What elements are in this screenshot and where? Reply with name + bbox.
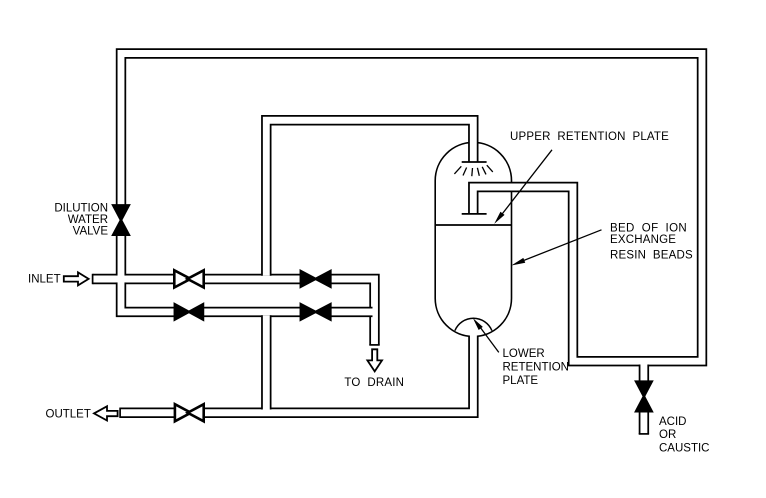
valve V3 second row left (closed) [174,303,203,320]
svg-text:RETENTION: RETENTION [503,362,569,374]
pipe: riser from second row to outlet line [261,315,271,409]
svg-text:ACID: ACID [659,416,686,428]
upper retention plate (bed top line) [435,224,511,226]
upper distributor T-bar [462,161,487,163]
leader: bed of resin [516,230,602,264]
cap: drain stub end [369,344,379,346]
svg-text:LOWER: LOWER [503,348,545,360]
label: LOWER RETENTION PLATE [503,348,569,387]
cap: acid/caustic stub end [639,433,649,435]
valve V2 inlet row right (closed) [300,270,331,287]
spray lines under distributor [454,165,492,176]
svg-text:INLET: INLET [28,273,61,285]
svg-text:OR: OR [659,429,676,441]
svg-text:EXCHANGE: EXCHANGE [610,234,676,246]
svg-text:RESIN BEADS: RESIN BEADS [610,250,693,262]
drain flow arrow [367,349,382,371]
svg-text:TO DRAIN: TO DRAIN [344,377,404,389]
pipe: inlet row and drain drop [93,279,375,345]
leader: upper retention plate [499,150,552,218]
valve V5 outlet (open) [175,404,204,421]
inlet flow arrow [64,272,89,285]
svg-text:OUTLET: OUTLET [46,409,91,421]
lower distributor T-bar [462,213,487,215]
svg-text:DILUTION: DILUTION [54,203,108,215]
pipe: tank top feed from inlet row [266,120,473,275]
pipe: outlet line and riser to tank bottom [120,336,473,413]
cap: inlet pipe end [92,274,94,284]
tank vessel outline [435,142,511,336]
junction patch: open cross at inlet row and left riser [115,276,127,283]
lower retention plate arc [455,318,492,330]
valve V1 inlet row left (open) [174,270,203,287]
svg-text:VALVE: VALVE [73,226,109,238]
svg-text:UPPER RETENTION PLATE: UPPER RETENTION PLATE [510,131,669,143]
pipe: main loop (second row, left riser, top run, right drop, funnel bottom, regen line into tank) [121,54,702,362]
svg-text:CAUSTIC: CAUSTIC [659,443,709,455]
svg-text:BED OF ION: BED OF ION [610,223,687,235]
valve V4 second row right (closed) [300,303,331,320]
svg-text:PLATE: PLATE [503,375,539,387]
valve V7 acid/caustic (closed, vertical) [635,381,652,412]
svg-text:WATER: WATER [68,214,108,226]
label: BED OF ION EXCHANGE RESIN BEADS [610,223,693,262]
outlet flow arrow [94,406,118,420]
label: ACID OR CAUSTIC [659,416,709,455]
leader: lower retention plate [477,323,499,352]
valve V6 dilution water (closed, vertical) [112,205,129,235]
label: DILUTION WATER VALVE [54,203,108,238]
pipe: acid/caustic drop [639,365,649,434]
cap: outlet pipe end [119,408,121,418]
